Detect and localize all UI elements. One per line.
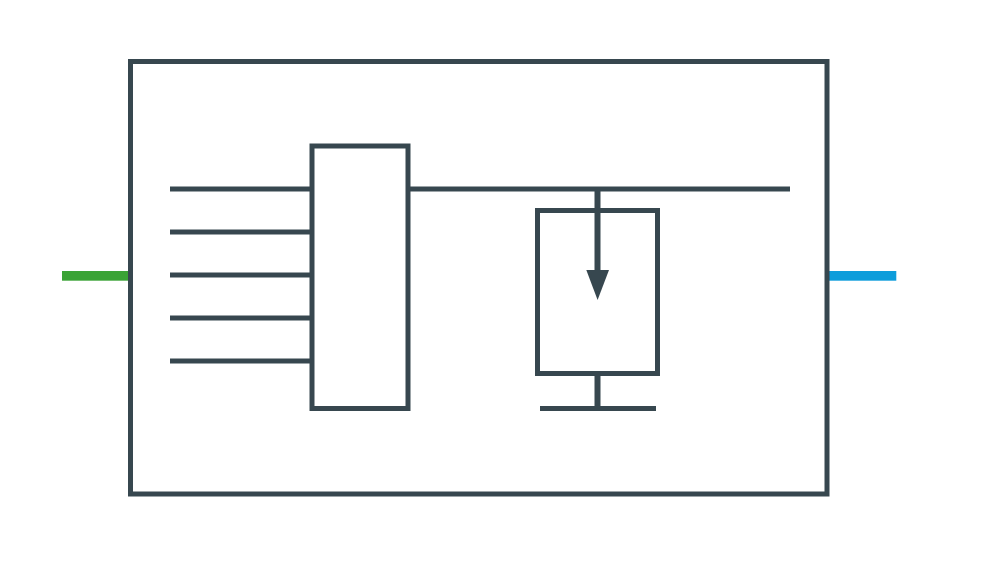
- wire: input line 5: [170, 359, 312, 364]
- wire: input line 2: [170, 230, 312, 235]
- ground: [540, 406, 656, 411]
- wire: input line 3: [170, 273, 312, 278]
- wire: blue output line: [829, 271, 896, 281]
- wire: green input line: [62, 271, 130, 281]
- current source I1 body: [538, 211, 658, 374]
- multiplexer block U1: [312, 146, 408, 409]
- wire: output bus line: [408, 187, 790, 192]
- current source arrow head: [586, 270, 609, 300]
- wire: input line 1: [170, 187, 312, 192]
- wire: stub to ground: [595, 374, 601, 409]
- wire: input line 4: [170, 316, 312, 321]
- wire: drop from bus into current source: [595, 187, 601, 273]
- outer enclosure box: [131, 62, 828, 495]
